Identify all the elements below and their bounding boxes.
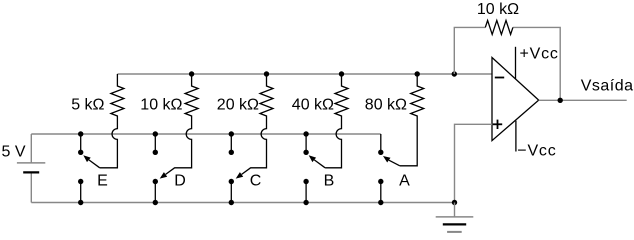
svg-text:80 kΩ: 80 kΩ — [365, 97, 407, 114]
switch C (SPDT, thrown down to ground rail) — [229, 131, 251, 205]
switch D (SPDT, thrown down to ground rail) — [153, 131, 175, 205]
svg-text:+Vcc: +Vcc — [520, 46, 559, 63]
svg-text:D: D — [174, 173, 186, 190]
switch B (SPDT, thrown up to +5V rail) — [303, 131, 325, 205]
battery V1 (5 V) plates — [17, 163, 45, 173]
junction: ground node on bottom rail — [452, 200, 457, 205]
wire: battery top lead — [30, 134, 32, 163]
op-amp U1 non-inverting input marker (+) — [493, 120, 502, 129]
svg-text:E: E — [97, 173, 108, 190]
svg-text:5 kΩ: 5 kΩ — [71, 97, 104, 114]
svg-text:40 kΩ: 40 kΩ — [292, 97, 334, 114]
switch A (SPDT, thrown up; rail ends in corner at its top contact) — [378, 134, 400, 205]
resistor R4 40 kOhm branch — [325, 74, 348, 168]
svg-text:20 kΩ: 20 kΩ — [217, 97, 259, 114]
svg-text:A: A — [399, 173, 410, 190]
svg-text:10 kΩ: 10 kΩ — [477, 1, 519, 18]
switch E (SPDT, thrown up to +5V rail) — [78, 131, 100, 205]
wire: bottom rail (ground return) — [31, 202, 454, 204]
resistor R1 5 kOhm branch (lead, zigzag, hop over rail, wire to switch E) — [100, 74, 124, 168]
resistor R5 80 kOhm branch (no hop, rail ends before it) — [400, 74, 424, 166]
resistor R2 10 kOhm branch — [174, 74, 198, 168]
junction: feedback tap on bus — [452, 71, 457, 76]
junction: R4 top on bus — [339, 71, 344, 76]
junction: R2 top on bus — [189, 71, 194, 76]
power lead +Vcc — [515, 47, 517, 79]
wire: top rail from battery + — [31, 133, 381, 135]
resistor R3 20 kOhm branch — [250, 74, 273, 168]
junction: R5 top on bus — [415, 71, 420, 76]
junction: R3 top on bus — [264, 71, 269, 76]
wire: inverting-input bus (top horizontal) — [117, 73, 492, 75]
power lead -Vcc — [515, 121, 517, 152]
svg-text:B: B — [324, 173, 335, 190]
wire: battery bottom lead — [30, 172, 32, 202]
wire: op-amp output to Vsaida — [539, 99, 627, 101]
svg-text:C: C — [250, 173, 262, 190]
op-amp U1 inverting input marker (-) — [495, 77, 504, 79]
wire: non-inverting input to ground rail — [455, 124, 493, 202]
svg-text:5 V: 5 V — [2, 144, 26, 161]
svg-text:10 kΩ: 10 kΩ — [140, 97, 182, 114]
svg-text:−Vcc: −Vcc — [517, 142, 556, 159]
resistor Rf 10 kOhm (feedback, horizontal) — [485, 20, 513, 34]
svg-text:Vsaída: Vsaída — [581, 78, 634, 95]
junction: output node — [558, 98, 563, 103]
op-amp U1 triangle — [492, 58, 539, 141]
ground symbol — [436, 203, 474, 232]
wire: feedback loop (left riser, top run, right riser to output) — [454, 27, 560, 100]
